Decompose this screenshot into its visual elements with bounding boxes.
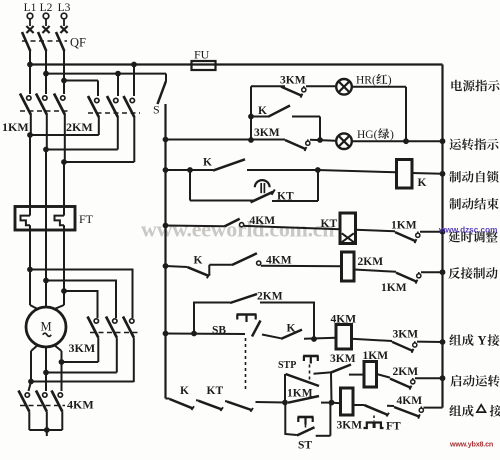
svg-text:M: M: [40, 320, 51, 334]
svg-text:KT: KT: [207, 385, 224, 397]
svg-text:Y: Y: [478, 334, 487, 348]
svg-text:4KM: 4KM: [397, 395, 423, 407]
svg-text:FU: FU: [194, 48, 210, 62]
svg-text:K: K: [418, 177, 427, 189]
svg-text:): ): [390, 129, 394, 141]
svg-text:2KM: 2KM: [257, 291, 283, 303]
svg-text:3KM: 3KM: [337, 420, 363, 432]
svg-text:L3: L3: [58, 2, 71, 14]
svg-text:FT: FT: [386, 421, 401, 433]
svg-text:SB: SB: [212, 325, 226, 337]
svg-text:ST: ST: [298, 440, 312, 452]
svg-text:3KM: 3KM: [254, 127, 280, 139]
svg-text:K: K: [194, 255, 203, 267]
svg-text:FT: FT: [79, 212, 94, 226]
svg-text:K: K: [258, 105, 267, 117]
svg-text:2KM: 2KM: [393, 366, 419, 378]
svg-text:S: S: [153, 103, 160, 117]
svg-text:1KM: 1KM: [2, 120, 29, 134]
svg-text:KT: KT: [277, 191, 294, 203]
svg-text:HR(: HR(: [356, 75, 376, 87]
svg-text:3KM: 3KM: [69, 341, 96, 355]
svg-text:3KM: 3KM: [330, 353, 356, 365]
svg-text:1KM: 1KM: [381, 282, 407, 294]
svg-text:4KM: 4KM: [266, 255, 292, 267]
svg-text:QF: QF: [70, 36, 86, 50]
svg-text:): ): [388, 75, 392, 87]
svg-text:3KM: 3KM: [393, 329, 419, 341]
svg-text:1KM: 1KM: [391, 220, 417, 232]
svg-text:K: K: [180, 385, 189, 397]
svg-text:2KM: 2KM: [358, 256, 384, 268]
svg-text:K: K: [203, 157, 212, 169]
svg-text:3KM: 3KM: [280, 75, 306, 87]
svg-text:4KM: 4KM: [67, 398, 94, 412]
svg-text:HG(: HG(: [357, 129, 378, 141]
svg-text:L2: L2: [40, 2, 53, 14]
svg-text:4KM: 4KM: [250, 215, 276, 227]
svg-text:L1: L1: [24, 2, 37, 14]
svg-text:KT: KT: [321, 218, 338, 230]
svg-text:STP: STP: [278, 360, 296, 371]
svg-text:www.dzsc.com: www.dzsc.com: [438, 226, 497, 235]
svg-text:www.ybx8.cn: www.ybx8.cn: [449, 440, 493, 449]
svg-text:2KM: 2KM: [66, 120, 93, 134]
